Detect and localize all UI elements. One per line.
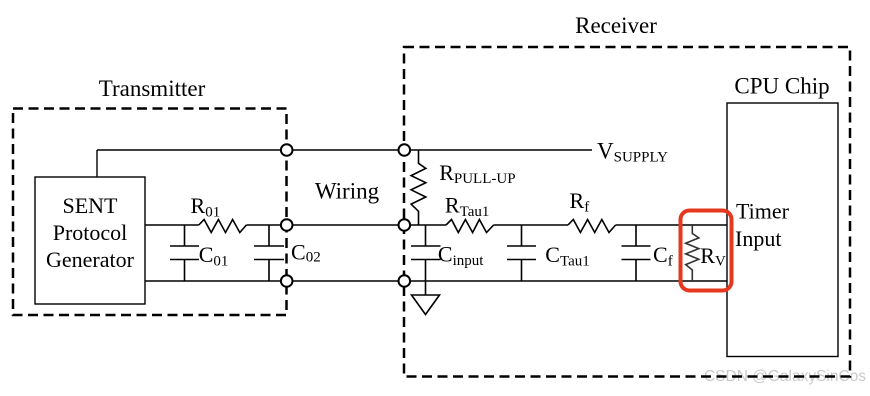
node receiver edge signal <box>399 219 411 231</box>
capacitor C02 <box>254 225 284 281</box>
wire signal line Rf to CPU timer input <box>616 224 727 226</box>
svg-text:Receiver: Receiver <box>575 13 657 38</box>
receiver dashed boundary box <box>404 47 850 377</box>
node transmitter edge supply <box>281 144 293 156</box>
capacitor Cinput <box>411 225 441 295</box>
block U2 CPU Chip <box>727 103 838 357</box>
svg-text:Transmitter: Transmitter <box>99 76 206 101</box>
transmitter dashed boundary box <box>13 109 287 316</box>
wire signal line RTau1 to Rf <box>494 224 568 226</box>
capacitor CTau1 <box>507 225 536 281</box>
node transmitter edge ground <box>281 275 293 287</box>
svg-text:SENT: SENT <box>63 193 119 218</box>
capacitor C01 <box>170 225 199 281</box>
wire ground return line <box>145 280 727 282</box>
svg-text:Timer: Timer <box>736 199 790 224</box>
resistor R01 <box>199 220 247 233</box>
svg-text:Wiring: Wiring <box>315 179 380 204</box>
wire signal line SENT output to R01 <box>145 224 199 226</box>
node transmitter edge signal <box>281 219 293 231</box>
svg-text:Generator: Generator <box>46 247 135 272</box>
capacitor Cf <box>622 225 651 281</box>
node receiver edge supply <box>399 144 411 156</box>
node receiver edge ground <box>399 275 411 287</box>
block U1 SENT Protocol Generator <box>35 177 145 304</box>
resistor RTau1 <box>446 220 494 233</box>
resistor Rf <box>568 220 616 233</box>
red highlight box around RV <box>681 211 732 291</box>
wire riser from SENT generator top to supply rail <box>96 150 98 177</box>
svg-text:Input: Input <box>735 226 781 251</box>
resistor RV <box>686 225 699 281</box>
ground <box>412 295 440 315</box>
svg-text:CPU Chip: CPU Chip <box>734 74 829 99</box>
wire signal line R01 through wiring to RTau1 <box>246 224 446 226</box>
wire VSUPPLY rail <box>97 149 592 151</box>
resistor RPULL-UP <box>411 150 426 225</box>
svg-text:Protocol: Protocol <box>53 220 128 245</box>
